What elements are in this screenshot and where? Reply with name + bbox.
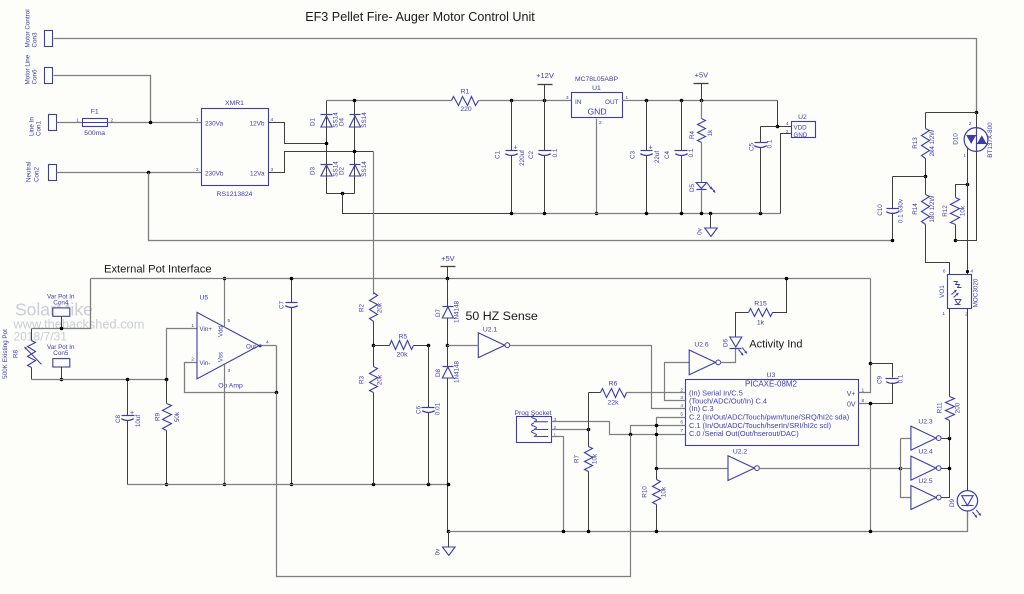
- svg-text:D9: D9: [949, 498, 956, 507]
- power +12V: [538, 84, 553, 86]
- junction C8 top: [126, 378, 130, 382]
- svg-text:5: 5: [680, 411, 683, 417]
- junction +5V node: [700, 99, 704, 103]
- svg-text:+: +: [130, 410, 134, 417]
- regulator U1 MC78L05ABP: [572, 93, 623, 118]
- svg-text:1: 1: [942, 311, 945, 317]
- junction 0V C9 node: [869, 402, 873, 406]
- svg-text:1: 1: [196, 117, 199, 123]
- svg-text:4: 4: [266, 340, 269, 346]
- potentiometer R8 500K Existing Pot: [31, 329, 33, 341]
- resistor R14 180 1/2W: [925, 177, 927, 195]
- resistor R13 2k4 1/2W: [925, 113, 927, 129]
- svg-text:220uf: 220uf: [519, 150, 526, 166]
- junction C6 top: [427, 344, 431, 348]
- wire PICAXE pin3 to U2.6 input: [665, 363, 690, 401]
- svg-text:0.1: 0.1: [552, 148, 559, 157]
- junction C7 bottom: [290, 483, 294, 487]
- wire VDD to C5 top: [761, 126, 778, 128]
- svg-text:SS14: SS14: [361, 161, 368, 177]
- LED D9: [957, 491, 977, 511]
- junction triac top node: [975, 111, 979, 115]
- junction U2.3 out: [948, 437, 952, 441]
- svg-text:0.1: 0.1: [898, 374, 905, 383]
- wire bridge bottom to ground rail: [343, 194, 512, 214]
- connector Con2 Neutral: [49, 165, 57, 181]
- junction C4 bottom: [680, 212, 684, 216]
- wire MOC pin1 to R11: [949, 309, 951, 397]
- svg-text:R11: R11: [937, 402, 944, 414]
- svg-text:2: 2: [969, 121, 972, 127]
- svg-text:10k: 10k: [960, 205, 967, 216]
- resistor R1 220: [452, 97, 479, 106]
- diode D4 SS14: [350, 114, 361, 116]
- resistor R9 50k: [163, 404, 172, 431]
- svg-text:180 1/2W: 180 1/2W: [929, 195, 936, 222]
- diode D2 SS14: [350, 164, 361, 166]
- wire U2.3 input stub: [901, 438, 911, 440]
- junction ground symbol tap: [709, 212, 713, 216]
- svg-text:IN: IN: [575, 99, 582, 106]
- svg-text:C8: C8: [115, 414, 122, 423]
- junction line-in node: [149, 121, 153, 125]
- capacitor C6 0.01: [428, 346, 430, 408]
- svg-text:10k: 10k: [592, 453, 599, 464]
- resistor R11 200: [946, 397, 955, 421]
- junction R10 top: [655, 467, 659, 471]
- wire serial node up to R6: [588, 393, 590, 430]
- svg-text:U2.4: U2.4: [918, 448, 933, 455]
- svg-text:2: 2: [680, 387, 683, 393]
- svg-text:C7: C7: [279, 300, 286, 309]
- wire 0V pin to ground bus: [859, 404, 871, 532]
- wire U2.4 input stub: [901, 468, 911, 470]
- svg-text:12Vb: 12Vb: [250, 121, 265, 128]
- junction bridge mid-right: [353, 150, 357, 154]
- junction R15 top: [785, 277, 789, 281]
- triac D10 BT137X-800: [976, 113, 978, 128]
- wire analog ground rail: [128, 484, 449, 486]
- svg-text:External Pot Interface: External Pot Interface: [104, 264, 212, 276]
- resistor R4 1k: [701, 101, 703, 119]
- junction C5 bottom: [759, 212, 763, 216]
- svg-text:Motor Control: Motor Control: [24, 9, 31, 47]
- svg-text:1N4148: 1N4148: [454, 300, 461, 323]
- inverter U2.6: [689, 350, 715, 375]
- fuse F1 500ma: [83, 119, 108, 127]
- svg-text:C6: C6: [416, 405, 423, 414]
- capacitor C4 0.1: [681, 101, 683, 151]
- wire U5 Vss stub: [224, 365, 226, 485]
- wire op amp feedback loop: [185, 346, 277, 393]
- junction driver input node: [899, 467, 903, 471]
- wire Con2 to XMR1 pin2: [57, 172, 202, 174]
- wire U2.6 out to D6: [721, 349, 736, 363]
- junction D5 bottom: [700, 212, 704, 216]
- svg-text:12Va: 12Va: [250, 171, 265, 178]
- power +5V main: [694, 83, 709, 85]
- wire socket pin2 to R6 node: [552, 429, 589, 431]
- svg-text:D7: D7: [435, 308, 442, 317]
- svg-text:200: 200: [955, 402, 962, 413]
- wire bridge right lower branch: [354, 152, 356, 194]
- junction +12V node: [543, 99, 547, 103]
- svg-text:Line In: Line In: [29, 117, 36, 136]
- svg-text:10uf: 10uf: [135, 415, 142, 428]
- svg-text:RS1213824: RS1213824: [217, 191, 253, 198]
- svg-text:50k: 50k: [174, 411, 181, 422]
- junction D8 ground rail: [447, 483, 451, 487]
- wire PICAXE pin6 row: [631, 426, 686, 435]
- svg-text:6: 6: [943, 269, 946, 275]
- junction U2.4 out: [948, 467, 952, 471]
- wire MOC pin2 to D9: [967, 309, 969, 491]
- wire socket pin1 to ground: [552, 437, 564, 532]
- svg-text:Motor Line: Motor Line: [24, 54, 31, 84]
- wire XMR1 pin3 to bridge mid-right: [269, 152, 374, 173]
- resistor R10 10k: [653, 480, 661, 505]
- junction bridge bottom: [341, 192, 345, 196]
- svg-text:Con5: Con5: [53, 350, 69, 357]
- svg-text:Out: Out: [246, 343, 256, 350]
- wire driver input bus: [901, 439, 911, 498]
- wire bridge left branch: [326, 101, 328, 144]
- wire ground rail power section: [512, 213, 781, 215]
- svg-text:R7: R7: [574, 454, 581, 463]
- ground 0v logic section: [448, 532, 450, 547]
- svg-text:220: 220: [460, 106, 472, 113]
- buffer U2.2: [728, 456, 754, 481]
- inverter U2.4: [911, 456, 936, 480]
- svg-text:1: 1: [76, 118, 79, 124]
- capacitor C3 22uf: [646, 101, 648, 151]
- svg-text:20k: 20k: [377, 374, 384, 385]
- svg-text:2: 2: [786, 129, 789, 135]
- svg-text:EF3 Pellet Fire- Auger Motor C: EF3 Pellet Fire- Auger Motor Control Uni…: [305, 10, 535, 24]
- svg-text:C1: C1: [495, 150, 502, 159]
- junction C1 top: [510, 99, 514, 103]
- svg-text:Vin+: Vin+: [200, 326, 213, 333]
- svg-text:2k4 1/2W: 2k4 1/2W: [929, 130, 936, 157]
- svg-text:0v: 0v: [435, 548, 442, 556]
- wire Con3 to triac top: [54, 39, 977, 113]
- junction U2 VDD node: [776, 125, 780, 129]
- svg-text:F1: F1: [91, 109, 99, 116]
- junction R10 ground: [655, 530, 659, 534]
- resistor R12 10k: [955, 225, 957, 241]
- svg-text:V+: V+: [847, 391, 856, 398]
- svg-text:R9: R9: [155, 412, 162, 421]
- wire Con1 to fuse: [57, 122, 83, 124]
- svg-text:R4: R4: [689, 130, 696, 139]
- junction Con4 node: [60, 327, 64, 331]
- svg-text:C.0 /Serial Out(Out/hserout/DA: C.0 /Serial Out(Out/hserout/DAC): [689, 429, 799, 438]
- svg-text:Con4: Con4: [53, 300, 69, 307]
- svg-text:22uf: 22uf: [654, 151, 661, 164]
- resistor R15 1k: [736, 313, 749, 337]
- svg-text:MC78L05ABP: MC78L05ABP: [575, 76, 619, 83]
- svg-text:Con1: Con1: [36, 120, 43, 136]
- junction R3 bottom: [372, 483, 376, 487]
- svg-text:10k: 10k: [661, 486, 668, 497]
- svg-text:R8: R8: [13, 349, 20, 358]
- svg-text:3: 3: [228, 368, 231, 374]
- svg-text:U5: U5: [200, 294, 209, 301]
- svg-text:Vin-: Vin-: [200, 360, 211, 367]
- svg-text:0.1 630v: 0.1 630v: [898, 198, 905, 223]
- svg-text:4: 4: [971, 269, 974, 275]
- buffer U2.1: [478, 333, 504, 358]
- svg-text:+5V: +5V: [441, 254, 455, 263]
- junction U1 GND: [595, 212, 599, 216]
- svg-text:D10: D10: [953, 133, 960, 145]
- wire neutral rail: [149, 173, 893, 241]
- ic U2 power VDD GND: [792, 122, 816, 138]
- junction Vin+ R9 node: [165, 378, 169, 382]
- wire V+ feed: [859, 279, 871, 393]
- wire gate node to MOC pin4: [967, 149, 969, 275]
- svg-text:Neutral: Neutral: [25, 162, 32, 182]
- svg-text:R15: R15: [754, 300, 767, 307]
- wire snubber node to C10: [893, 176, 926, 178]
- junction C2 bottom: [543, 212, 547, 216]
- svg-text:SS14: SS14: [361, 112, 368, 128]
- junction C10 bottom: [891, 239, 895, 243]
- svg-text:R10: R10: [642, 486, 649, 498]
- junction triac gate node: [966, 183, 970, 187]
- junction Con5 node: [60, 378, 64, 382]
- junction C3 bottom: [645, 212, 649, 216]
- inverter U2.3: [911, 426, 936, 450]
- LED D5: [696, 183, 707, 189]
- svg-text:D4: D4: [339, 117, 346, 126]
- svg-text:2018/7/31: 2018/7/31: [14, 330, 68, 344]
- wire U2 GND down: [781, 134, 792, 214]
- junction 0V ground bus: [869, 530, 873, 534]
- wire pin-bus to R10 and U2.2 input: [657, 468, 729, 470]
- svg-text:C9: C9: [877, 375, 884, 384]
- junction serial-in node: [587, 428, 591, 432]
- svg-text:D5: D5: [689, 183, 696, 192]
- resistor R6 22k: [589, 392, 601, 394]
- svg-text:GND: GND: [794, 132, 808, 139]
- junction R9 bottom: [165, 483, 169, 487]
- svg-text:1N4148: 1N4148: [454, 360, 461, 383]
- svg-text:6: 6: [680, 420, 683, 426]
- capacitor C5 0.1: [760, 127, 762, 143]
- svg-text:VDD: VDD: [794, 125, 808, 132]
- wire logic ground bus: [449, 512, 968, 532]
- junction divider node: [372, 344, 376, 348]
- svg-text:1: 1: [963, 153, 966, 159]
- junction pin6 bus tap: [655, 424, 659, 428]
- wire bridge left lower branch: [326, 144, 328, 194]
- connector Con1 Line In: [49, 115, 57, 131]
- junction D4 top: [353, 99, 357, 103]
- power +5V sense: [441, 266, 456, 268]
- junction pin7 opamp tap: [629, 433, 633, 437]
- svg-text:MOC3020: MOC3020: [973, 278, 980, 307]
- junction C4 top: [680, 99, 684, 103]
- svg-text:Con6: Con6: [31, 69, 38, 85]
- svg-text:BT137X-800: BT137X-800: [987, 122, 994, 158]
- svg-text:2: 2: [191, 357, 194, 363]
- transformer XMR1 RS1213824: [202, 109, 269, 186]
- svg-text:0.1: 0.1: [767, 139, 774, 148]
- diode D7 1N4148: [447, 279, 449, 307]
- junction MOC pin4 top: [966, 270, 969, 273]
- wire R14 to MOC pin6: [926, 225, 950, 275]
- svg-text:+: +: [514, 145, 518, 152]
- svg-text:1k: 1k: [757, 319, 765, 326]
- wire +5V to U2 VDD: [778, 101, 792, 127]
- junction +5V sense node: [446, 277, 450, 281]
- svg-text:D8: D8: [435, 368, 442, 377]
- svg-text:3: 3: [566, 95, 569, 101]
- junction main ground node: [447, 530, 451, 534]
- svg-text:VO1: VO1: [939, 285, 946, 298]
- capacitor C9 0.1: [871, 364, 893, 378]
- svg-text:R14: R14: [912, 203, 919, 215]
- wire bridge top to R1: [327, 100, 452, 102]
- svg-text:+12V: +12V: [536, 71, 554, 80]
- svg-text:U2.5: U2.5: [918, 478, 933, 485]
- junction C1 bottom: [510, 212, 514, 216]
- svg-text:5: 5: [228, 318, 231, 324]
- svg-text:0.01: 0.01: [435, 402, 442, 415]
- connector Con3 Motor Control: [45, 31, 53, 47]
- junction C9 tap: [869, 362, 873, 366]
- wire U1 GND to ground rail: [596, 119, 598, 214]
- svg-text:D3: D3: [310, 166, 317, 175]
- svg-text:2: 2: [196, 167, 199, 173]
- junction neutral node: [147, 171, 151, 175]
- resistor R2 20k: [370, 293, 378, 322]
- svg-text:Con2: Con2: [33, 166, 40, 182]
- svg-text:R1: R1: [461, 89, 470, 96]
- diode D1 SS14: [321, 114, 333, 116]
- svg-text:Activity Ind: Activity Ind: [749, 338, 802, 350]
- svg-text:D2: D2: [339, 166, 346, 175]
- diode D8 1N4148: [447, 346, 449, 367]
- svg-text:1: 1: [191, 323, 194, 329]
- junction R13 R14 node: [924, 175, 928, 179]
- svg-text:C2: C2: [528, 150, 535, 159]
- svg-text:U3: U3: [767, 372, 776, 379]
- svg-text:OUT: OUT: [605, 99, 619, 106]
- svg-text:20k: 20k: [397, 352, 409, 359]
- wire U2.2 out to driver inputs: [759, 468, 901, 470]
- op-amp U5: [197, 312, 259, 378]
- wire opamp out to pin7 node: [277, 393, 631, 577]
- wire PICAXE pin5 bus: [657, 418, 686, 469]
- svg-text:2: 2: [599, 120, 602, 126]
- diode D3 SS14: [321, 164, 333, 166]
- svg-text:D1: D1: [310, 117, 317, 126]
- svg-text:R12: R12: [942, 205, 949, 217]
- svg-text:R13: R13: [912, 137, 919, 149]
- svg-text:50 HZ Sense: 50 HZ Sense: [466, 309, 538, 323]
- svg-text:R6: R6: [609, 380, 618, 387]
- svg-text:C3: C3: [630, 150, 637, 159]
- svg-text:500ma: 500ma: [84, 130, 105, 137]
- resistor R5 20k: [374, 345, 390, 347]
- optocoupler VO1 MOC3020: [948, 275, 972, 309]
- svg-text:U2.1: U2.1: [483, 327, 498, 334]
- wire bridge bottom rail: [327, 193, 355, 195]
- wire socket pin3 to PICAXE pin7: [552, 422, 686, 435]
- svg-text:20k: 20k: [377, 302, 384, 313]
- wire triac top node to R13: [926, 112, 977, 114]
- junction sense node: [446, 344, 450, 348]
- junction op amp out node: [275, 391, 279, 395]
- wire bridge right branch: [354, 101, 356, 152]
- svg-text:230Vb: 230Vb: [205, 171, 224, 178]
- wire R1 to regulator input: [479, 100, 572, 102]
- svg-text:U2.3: U2.3: [918, 418, 933, 425]
- svg-text:230Va: 230Va: [205, 121, 223, 128]
- wire U1 OUT +5V rail: [623, 100, 778, 102]
- wire R8 top to Vdd rail: [32, 279, 91, 329]
- svg-text:U2: U2: [798, 114, 807, 121]
- svg-text:R2: R2: [359, 303, 366, 312]
- wire Vin+ branch: [167, 329, 197, 380]
- svg-text:1k: 1k: [707, 129, 714, 137]
- resistor R7 10k: [588, 430, 590, 447]
- svg-text:1: 1: [554, 433, 557, 439]
- junction R7 ground: [587, 530, 591, 534]
- wire Con6 to line junction: [54, 76, 151, 123]
- LED D6 Activity Ind: [730, 337, 742, 347]
- svg-text:7: 7: [680, 428, 683, 434]
- junction bridge mid-left: [325, 142, 329, 146]
- svg-text:C10: C10: [877, 204, 884, 216]
- junction U5 Vss bottom: [223, 483, 227, 487]
- svg-text:4: 4: [786, 121, 789, 127]
- svg-text:Vss: Vss: [218, 352, 225, 362]
- svg-text:XMR1: XMR1: [225, 100, 244, 107]
- svg-text:Con3: Con3: [31, 32, 38, 48]
- svg-text:Op Amp: Op Amp: [218, 382, 243, 389]
- junction pin7 bus tap: [655, 433, 659, 437]
- resistor R3 20k: [373, 346, 375, 367]
- svg-text:D6: D6: [723, 338, 730, 347]
- wire R6 to PICAXE pin2: [627, 392, 686, 394]
- svg-text:4: 4: [680, 403, 683, 409]
- svg-text:C4: C4: [664, 150, 671, 159]
- svg-text:R5: R5: [399, 334, 408, 341]
- svg-text:0V: 0V: [847, 402, 856, 409]
- ground 0v power section: [710, 214, 712, 229]
- wire bridge AC sense down: [373, 152, 375, 295]
- svg-text:0v: 0v: [697, 227, 704, 235]
- wire U5 Vdd stub: [224, 279, 226, 328]
- svg-text:U2.2: U2.2: [733, 449, 748, 456]
- svg-text:U1: U1: [592, 85, 601, 92]
- capacitor C10 0.1 630v: [892, 177, 894, 209]
- svg-text:Vdd: Vdd: [218, 325, 225, 337]
- svg-text:C5: C5: [749, 142, 756, 151]
- svg-text:22k: 22k: [608, 400, 620, 407]
- junction R12 bottom: [954, 239, 958, 243]
- junction C6 bottom: [427, 483, 431, 487]
- wire XMR1 pin4 to bridge mid-left: [269, 123, 327, 144]
- junction C3 top: [645, 99, 649, 103]
- wire R8 bottom net: [32, 379, 169, 381]
- svg-text:0.1: 0.1: [688, 148, 695, 157]
- svg-text:500K Existing Pot: 500K Existing Pot: [2, 329, 9, 379]
- capacitor C1 220uf: [511, 101, 513, 151]
